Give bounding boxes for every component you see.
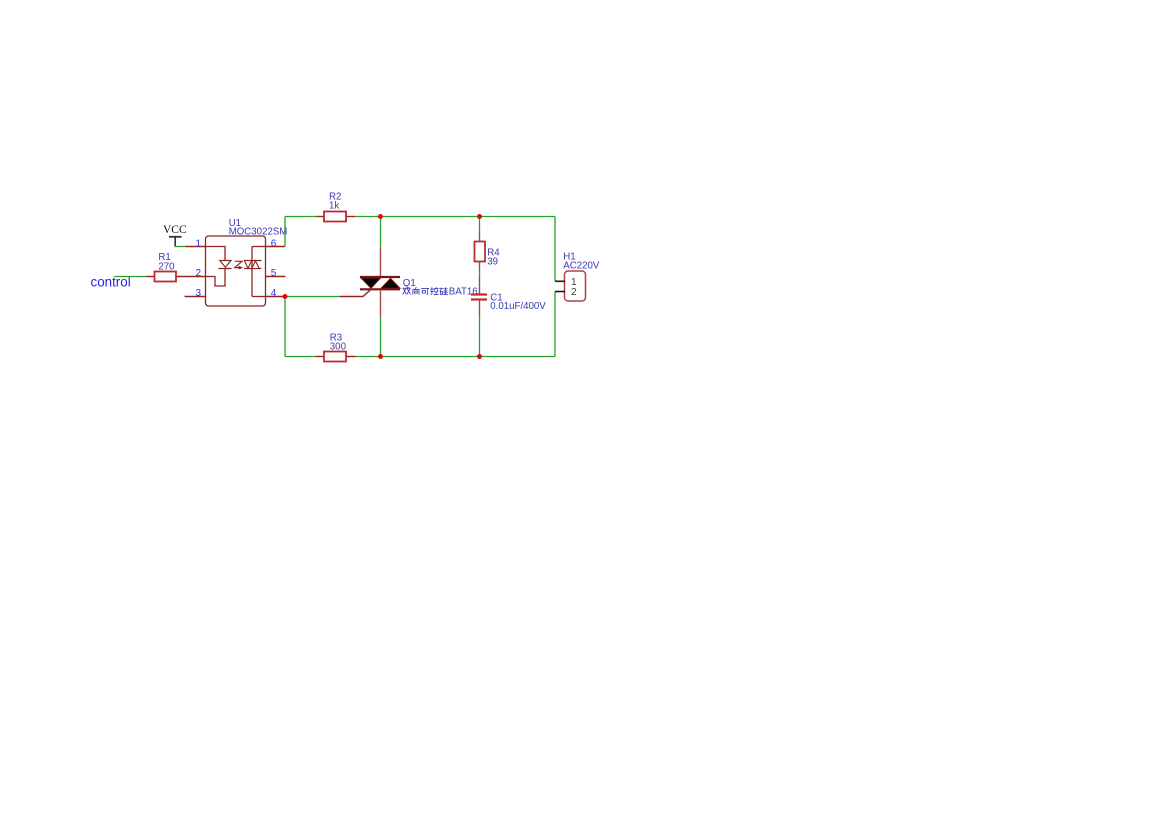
svg-text:BAT16: BAT16	[449, 287, 478, 298]
U1 LED	[219, 261, 232, 269]
wire triac top	[380, 217, 382, 278]
power VCC	[163, 224, 187, 246]
glyph 可	[421, 288, 428, 294]
resistor R1	[146, 252, 206, 282]
U1 pin 2	[196, 268, 226, 286]
wire triac bottom	[380, 290, 382, 357]
svg-text:6: 6	[271, 238, 277, 249]
U1 pin 3 stub	[185, 288, 206, 299]
junction top-R4	[477, 214, 482, 219]
junction bottom-triac	[378, 354, 383, 359]
U1 diac	[244, 247, 262, 297]
junction bottom-C1	[477, 354, 482, 359]
junction pin4	[283, 294, 288, 299]
U1 light arrow	[235, 261, 244, 269]
wire pin4 to gate	[285, 289, 372, 297]
capacitor C1	[471, 292, 546, 312]
svg-text:5: 5	[271, 268, 277, 279]
wire bottom net left	[285, 356, 316, 358]
wire R4 to C1	[479, 262, 481, 294]
U1 pin 5 stub	[266, 268, 286, 279]
glyph 双	[403, 288, 410, 294]
resistor R4	[475, 242, 501, 268]
wire R4 top	[479, 217, 481, 242]
svg-text:Q1: Q1	[403, 278, 416, 289]
wire top net right	[355, 216, 555, 218]
svg-text:300: 300	[330, 342, 347, 353]
U1 pin 1	[196, 238, 226, 260]
wire C1 bottom	[479, 301, 481, 357]
connector H1	[563, 251, 600, 301]
H1 pin 1	[555, 277, 577, 288]
wire left drop	[284, 297, 286, 357]
resistor R2	[317, 192, 356, 222]
wire VCC to U1 pin1	[175, 246, 186, 248]
svg-text:2: 2	[196, 268, 202, 279]
wire bottom net right	[356, 356, 556, 358]
U1 pin 6	[252, 238, 285, 249]
svg-text:4: 4	[271, 288, 277, 299]
triac Q1	[360, 277, 478, 298]
U1 pin 4	[252, 288, 285, 299]
glyph 控	[431, 287, 439, 294]
wire control to R1	[115, 276, 147, 278]
svg-text:3: 3	[196, 288, 202, 299]
wire top net left	[285, 216, 317, 218]
glyph 硅	[440, 288, 448, 295]
optocoupler U1 MOC3022SM	[206, 218, 288, 306]
svg-text:39: 39	[487, 257, 498, 268]
svg-text:AC220V: AC220V	[563, 261, 600, 272]
wire pin6 riser	[284, 217, 286, 247]
H1 pin 2	[555, 287, 577, 298]
wire right riser top	[554, 217, 556, 282]
svg-text:270: 270	[158, 261, 175, 272]
svg-text:1k: 1k	[329, 201, 339, 212]
resistor R3	[316, 332, 356, 361]
glyph 向	[413, 287, 419, 294]
svg-text:0.01uF/400V: 0.01uF/400V	[490, 301, 546, 312]
svg-text:MOC3022SM: MOC3022SM	[229, 226, 288, 237]
svg-text:2: 2	[571, 287, 577, 298]
svg-text:VCC: VCC	[163, 224, 187, 236]
junction top-triac	[378, 214, 383, 219]
svg-text:1: 1	[196, 238, 202, 249]
wire right riser bottom	[554, 292, 556, 357]
